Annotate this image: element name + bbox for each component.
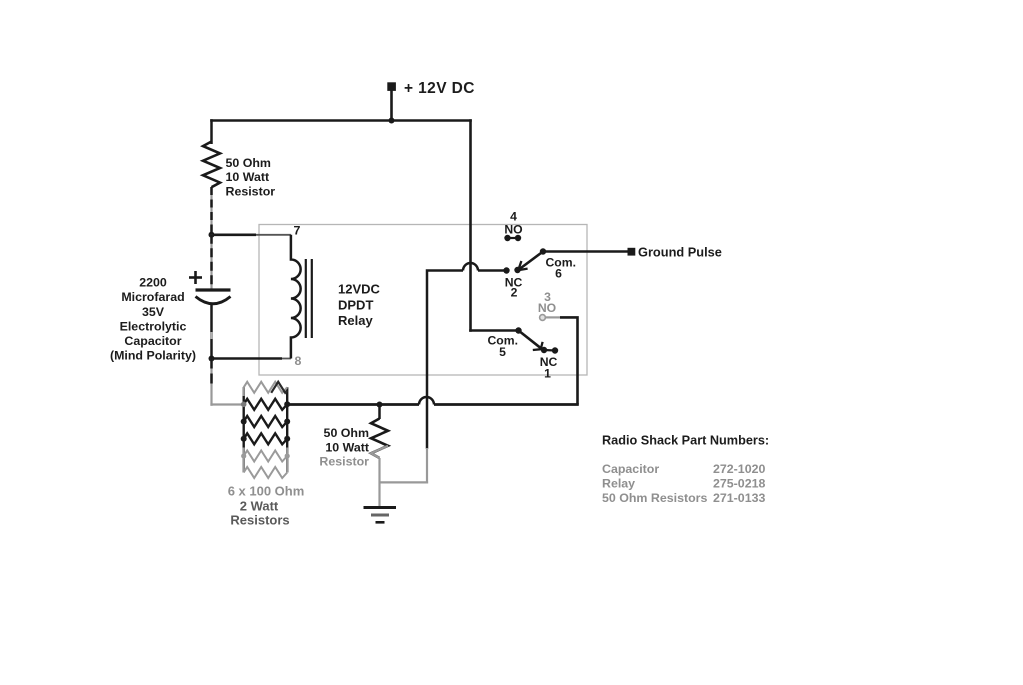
wire: left vertical, pin-7 node to capacitor C1 (dashed look) xyxy=(210,235,212,289)
svg-text:(Mind Polarity): (Mind Polarity) xyxy=(110,349,196,363)
resistor R6 100 Ohm (row 4) xyxy=(244,433,288,444)
svg-text:DPDT: DPDT xyxy=(338,297,373,312)
wire: left vertical, C1 to pin-8 node xyxy=(210,305,213,359)
svg-text:272-1020: 272-1020 xyxy=(713,462,765,476)
wire: left vertical, R1 to pin-7 node (dashed look) xyxy=(210,187,212,235)
svg-text:Microfarad: Microfarad xyxy=(121,290,184,304)
svg-text:10 Watt: 10 Watt xyxy=(325,440,369,454)
resistor R7 100 Ohm (row 5, gray) xyxy=(244,451,288,462)
svg-text:271-0133: 271-0133 xyxy=(713,491,765,505)
resistor R1 50 Ohm 10 Watt xyxy=(203,142,220,188)
wire: bottom main wire with hop over ground branch xyxy=(288,397,579,405)
contact Com 5 xyxy=(515,327,521,333)
contact pin 4 NO (upper, unused) xyxy=(504,235,521,241)
svg-text:2200: 2200 xyxy=(139,276,167,290)
resistor bank rails (6 x 100 Ohm) xyxy=(244,387,288,472)
switch arm upper: Com6 to NC2, with arrow xyxy=(518,252,543,271)
svg-text:Resistors: Resistors xyxy=(230,513,289,528)
wire: left vertical, pin-8 node to bottom wire xyxy=(210,359,212,406)
node: junction of left wire and pin-8 wire xyxy=(209,356,215,362)
label R2: 50 Ohm 10 Watt Resistor xyxy=(319,426,369,469)
wire: ground branch from NC2 wire, gray lower part xyxy=(380,448,429,484)
label part numbers table xyxy=(602,462,765,505)
svg-text:Electrolytic: Electrolytic xyxy=(120,319,187,333)
svg-text:1: 1 xyxy=(544,367,551,381)
wire: R2 bottom to ground (gray) xyxy=(378,458,380,507)
resistor R8 100 Ohm (row 6, gray) xyxy=(244,467,288,478)
label NC 2 xyxy=(505,275,523,299)
label R1: 50 Ohm 10 Watt Resistor xyxy=(226,156,276,199)
svg-text:Ground Pulse: Ground Pulse xyxy=(638,245,722,260)
wire: Com6 to Ground Pulse terminal xyxy=(543,250,628,253)
svg-text:50 Ohm Resistors: 50 Ohm Resistors xyxy=(602,491,707,505)
wire: top +12V rail xyxy=(210,119,472,122)
wire: NC2 to ground branch, with hop over right vertical xyxy=(427,263,507,449)
svg-text:2: 2 xyxy=(511,286,518,300)
resistor R5 100 Ohm (row 3) xyxy=(244,416,288,427)
wire: right vertical from +12V rail down to Com 5 xyxy=(469,119,518,332)
svg-text:6 x 100 Ohm: 6 x 100 Ohm xyxy=(228,484,305,499)
svg-text:4: 4 xyxy=(510,209,517,223)
ground pulse terminal square xyxy=(628,248,636,256)
svg-text:7: 7 xyxy=(294,224,301,238)
resistor R3 100 Ohm (row 1, gray) xyxy=(244,382,288,393)
label 6 x 100 Ohm 2 Watt Resistors xyxy=(228,484,305,528)
wire: bottom wire gray segment from left vertical to resistor bank xyxy=(210,403,244,405)
svg-text:8: 8 xyxy=(295,354,302,368)
relay U1 outline box xyxy=(259,225,587,376)
wire: NO3 right then down to bottom wire xyxy=(546,317,578,404)
relay core bars xyxy=(306,259,312,338)
wire: pin 7 horizontal to relay coil xyxy=(212,234,291,237)
svg-text:Relay: Relay xyxy=(338,313,373,328)
svg-text:35V: 35V xyxy=(142,305,165,319)
svg-text:Capacitor: Capacitor xyxy=(602,462,659,476)
svg-text:5: 5 xyxy=(499,345,506,359)
label pin 4 NO xyxy=(504,209,522,236)
resistor R2 50 Ohm 10 Watt (vertical) xyxy=(371,405,388,459)
label Com. 5 xyxy=(488,334,518,359)
label pin 3 NO (gray) xyxy=(538,290,556,315)
svg-text:Resistor: Resistor xyxy=(226,184,276,198)
nodes: resistor bank rail junction dots xyxy=(241,401,291,458)
svg-text:50 Ohm: 50 Ohm xyxy=(324,426,369,440)
svg-text:Capacitor: Capacitor xyxy=(124,334,181,348)
svg-text:Resistor: Resistor xyxy=(319,454,369,468)
svg-text:Radio Shack Part Numbers:: Radio Shack Part Numbers: xyxy=(602,434,769,448)
node: R2 top junction xyxy=(377,402,383,408)
wire: left vertical from rail to R1 xyxy=(210,119,213,144)
capacitor C1 2200uF electrolytic xyxy=(189,271,231,304)
contact Com 6 xyxy=(540,248,546,254)
svg-text:NO: NO xyxy=(538,301,556,315)
+12V DC supply terminal xyxy=(387,82,396,123)
svg-text:12VDC: 12VDC xyxy=(338,282,381,297)
contact NC 1 xyxy=(541,347,558,354)
wire: pin 8 horizontal to relay coil xyxy=(212,357,291,360)
svg-text:Relay: Relay xyxy=(602,477,635,491)
label Com. 6 xyxy=(546,256,576,281)
svg-text:6: 6 xyxy=(555,267,562,281)
node: junction of left wire and pin-7 wire xyxy=(209,232,215,238)
label NC 1 xyxy=(540,355,558,381)
relay coil L1 xyxy=(291,235,301,359)
svg-text:10 Watt: 10 Watt xyxy=(226,170,270,184)
svg-text:2 Watt: 2 Watt xyxy=(240,499,279,514)
label 12VDC DPDT Relay xyxy=(338,282,381,328)
label C1: 2200 Microfarad 35V Electrolytic Capacitor (Mind Polarity) xyxy=(110,276,196,363)
ground symbol xyxy=(364,508,397,523)
svg-text:NO: NO xyxy=(504,223,522,237)
switch arm lower: Com5 to NC1, with arrow xyxy=(519,331,543,351)
svg-text:275-0218: 275-0218 xyxy=(713,477,765,491)
resistor R4 100 Ohm (row 2) xyxy=(244,399,288,410)
svg-text:+ 12V DC: + 12V DC xyxy=(404,80,475,97)
svg-text:50 Ohm: 50 Ohm xyxy=(226,156,271,170)
contact NO 3 (open, gray) xyxy=(540,315,546,321)
contact NC 2 xyxy=(503,267,520,274)
